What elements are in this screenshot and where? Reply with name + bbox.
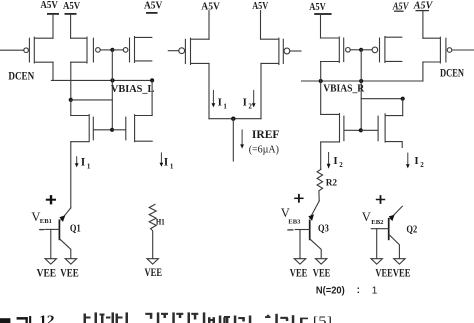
wire node to M5 gate [361, 49, 372, 51]
svg-text:I: I [164, 156, 169, 168]
wire A5V to M4 source [320, 15, 322, 39]
label VEB1 [31, 210, 51, 225]
node gate-left junction [110, 48, 114, 52]
label I1 center [218, 97, 228, 111]
wire A5V to M2 source [70, 15, 72, 39]
wire M2 gate to node [100, 49, 112, 51]
svg-text:VEE: VEE [393, 268, 411, 280]
label minus VEB1 [40, 229, 44, 231]
svg-text:A5V: A5V [63, 1, 81, 12]
label VEB3 [281, 206, 301, 226]
wire gates vertical left [111, 50, 113, 130]
arrow I1 center [212, 90, 216, 107]
wire A5V to center-right pmos [260, 11, 262, 40]
svg-text:EB1: EB1 [40, 218, 52, 225]
wire DCEN gate input [0, 49, 24, 51]
label I2 left-col [333, 155, 343, 169]
ground VEE Q3 collector [316, 259, 327, 264]
wire M4 drain to N3 drain [320, 62, 322, 115]
svg-text:A5V: A5V [201, 2, 220, 13]
resistor R2 [317, 169, 323, 201]
wire M1 drain to VBIAS_L [52, 62, 54, 80]
svg-text:VEE: VEE [60, 267, 78, 279]
wire center bus [209, 118, 261, 120]
wire A5V to M1 source [52, 15, 54, 39]
resistor H1 [149, 204, 156, 257]
pmos M4 [321, 37, 351, 63]
svg-text:DCEN: DCEN [440, 67, 464, 79]
svg-text:(=6µA): (=6µA) [249, 144, 279, 155]
node gate-right junction [359, 48, 363, 52]
svg-text:2: 2 [420, 161, 424, 169]
svg-text:I: I [414, 155, 418, 167]
svg-text:I: I [218, 97, 222, 109]
svg-text:VBIAS_R: VBIAS_R [323, 82, 365, 94]
node branch end [401, 97, 405, 101]
transistor Q1 pnp [45, 208, 71, 259]
nmos N1 [71, 115, 112, 142]
node nmos gates left [110, 128, 114, 132]
svg-text:EB3: EB3 [288, 218, 301, 225]
label I2 center [243, 97, 253, 111]
label plus VEB3 [294, 194, 303, 203]
nmos N3 [321, 114, 361, 143]
wire N3 source down [320, 142, 322, 169]
label I1 left [81, 156, 91, 170]
node M2 drain junction [69, 98, 73, 102]
svg-text:VBIAS_L: VBIAS_L [111, 83, 154, 95]
wire N1 source down [70, 142, 72, 208]
svg-text:[5]: [5] [313, 314, 332, 323]
power bar 3 [146, 12, 158, 14]
svg-text:H1: H1 [156, 217, 165, 226]
caption figure number strokes [0, 316, 31, 323]
pmos M1 [24, 37, 53, 63]
svg-text:DCEN: DCEN [8, 71, 34, 83]
pmos center-left [168, 38, 209, 64]
wire VBIAS_R rail [302, 80, 423, 82]
wire M4 gate to node [350, 49, 361, 51]
ground VEE Q1 base [45, 259, 56, 264]
node nmos gates right [359, 128, 363, 132]
node IREF junction [231, 117, 235, 121]
arrow I2 center [252, 90, 256, 107]
power bar 2 [65, 13, 77, 15]
node VBIAS_R mid [359, 79, 363, 83]
node VBIAS_R left [319, 79, 323, 83]
wire M2 drain to N1 drain [70, 100, 72, 116]
ground VEE H1 [147, 259, 158, 264]
svg-text:N(=20): N(=20) [316, 285, 345, 296]
svg-text:Q3: Q3 [318, 223, 329, 234]
svg-text:2: 2 [248, 102, 252, 110]
nmos N2 [112, 115, 152, 142]
ground VEE Q2 collector [394, 259, 405, 264]
svg-text:I: I [81, 156, 86, 168]
pmos M5 moscap [372, 37, 402, 63]
svg-text:1: 1 [372, 286, 378, 297]
svg-text:R2: R2 [326, 178, 338, 188]
svg-text:VEE: VEE [145, 267, 163, 279]
svg-text:VEE: VEE [37, 267, 57, 279]
pmos M2 [71, 37, 101, 63]
ground VEE Q3 base [294, 259, 305, 264]
wire center-left drain down [208, 63, 210, 118]
arrow I1 left [75, 157, 79, 167]
svg-text:1: 1 [223, 102, 227, 110]
svg-text:1: 1 [87, 162, 91, 170]
arrow IREF [240, 130, 244, 149]
power bar right 1 [314, 13, 331, 15]
svg-text::: : [357, 285, 360, 296]
label plus VEB1 [46, 195, 56, 204]
arrow I1 right [160, 153, 164, 167]
svg-text:IREF: IREF [252, 129, 280, 141]
pmos M6 [423, 37, 474, 63]
wire M2 drain down [70, 62, 72, 100]
svg-text:A5V: A5V [413, 0, 434, 11]
power bar right 3 [416, 10, 430, 12]
svg-text:I: I [243, 97, 247, 109]
label VEB2 [362, 210, 384, 226]
svg-text:VEE: VEE [375, 268, 392, 280]
transistor Q3 pnp [295, 201, 321, 259]
wire Q1 base to ground [50, 229, 52, 258]
wire M6 drain down [422, 62, 424, 81]
svg-text:Q1: Q1 [70, 223, 81, 234]
svg-text:A5V: A5V [40, 0, 58, 11]
wire N2 drain to VBIAS_L [151, 80, 153, 115]
svg-text:Q2: Q2 [406, 224, 417, 235]
label minus VEB3 [288, 229, 293, 231]
svg-text:12: 12 [39, 314, 55, 323]
ground VEE Q2 base [371, 259, 382, 264]
node VBIAS_L mid [110, 78, 114, 82]
svg-text:V: V [362, 210, 371, 224]
wire IREF down [232, 119, 234, 161]
svg-text:A5V: A5V [309, 2, 326, 13]
wire diode branch [71, 99, 113, 101]
caption text strokes [84, 312, 309, 323]
power bar 1 [47, 13, 59, 15]
wire branch to N4 drain [402, 99, 404, 116]
svg-text:VEE: VEE [290, 267, 308, 279]
wire center-right drain down [260, 63, 262, 118]
wire Q3 base to ground [299, 230, 301, 259]
svg-text:I: I [333, 155, 337, 167]
arrow I2 right-col [406, 153, 410, 168]
wire branch right [361, 98, 403, 100]
svg-text:1: 1 [170, 162, 174, 170]
node VBIAS_L end [150, 78, 154, 82]
arrow I2 left-col [327, 153, 331, 169]
label plus VEB2 [376, 195, 385, 204]
svg-text:A5V: A5V [144, 0, 163, 11]
svg-text:2: 2 [339, 161, 343, 169]
power bar right 2 [394, 10, 404, 12]
wire VBIAS_L rail [51, 79, 152, 81]
label I2 right-col [414, 155, 424, 169]
svg-text:VEE: VEE [313, 267, 331, 279]
wire A5V to center-left pmos [208, 11, 210, 40]
wire Q2 base to ground [376, 229, 378, 259]
pmos center-right [261, 38, 301, 64]
wire gates vertical right [360, 50, 362, 131]
wire node to M3 gate [112, 49, 123, 51]
label I1 right [164, 156, 174, 170]
transistor Q2 pnp [371, 206, 402, 258]
nmos N4 [361, 114, 403, 148]
svg-text:EB2: EB2 [371, 219, 384, 226]
pmos M3 moscap [123, 37, 152, 63]
wire A5V to M6 source [422, 11, 424, 39]
ground VEE Q1 collector [65, 259, 76, 264]
